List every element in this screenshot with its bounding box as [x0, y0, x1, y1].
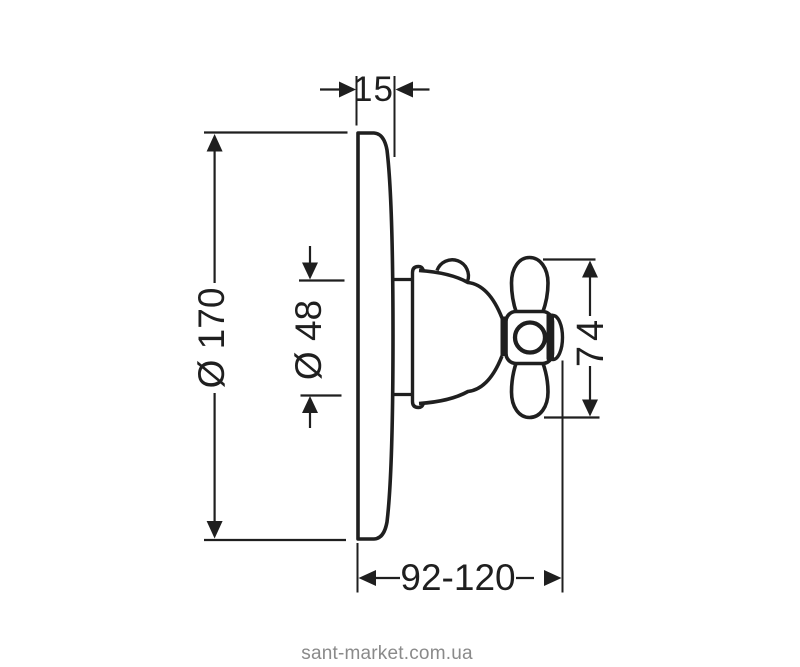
dimension D170: dimension line upper segment — [214, 150, 216, 283]
dimension 92-120: right leader line — [516, 577, 534, 579]
wire top connector plate-to-sleeve — [391, 278, 414, 281]
dimension 15: left extension line — [356, 76, 358, 126]
dimension 15: right leader line — [412, 88, 430, 90]
dimension 74: dimension line lower segment — [589, 366, 591, 400]
hub right bar — [547, 314, 555, 361]
svg-text:74: 74 — [570, 315, 612, 367]
dimension 74: bottom arrowhead — [582, 400, 598, 417]
dimension D48: top tick — [299, 279, 345, 281]
dimension 74: top arrowhead — [582, 261, 598, 278]
dome bottom edge — [419, 356, 502, 404]
dimension D170: top extension line — [204, 131, 348, 133]
svg-text:Ø 170: Ø 170 — [191, 288, 232, 389]
dimension 92-120: left extension line — [357, 543, 359, 593]
svg-text:Ø 48: Ø 48 — [288, 300, 329, 380]
dimension D48: bottom tick — [301, 394, 342, 396]
dimension 92-120: right arrowhead — [544, 570, 562, 586]
dimension D170: bottom extension line — [204, 539, 346, 541]
dimension D170: dimension line lower segment — [214, 393, 216, 522]
dimension 15: right arrowhead — [396, 82, 414, 98]
dimension D48: top arrowhead — [302, 263, 318, 280]
dimension D170: top arrowhead — [207, 134, 223, 152]
dimension 74: bottom extension line — [544, 416, 600, 418]
dimension 92-120: left arrowhead — [359, 570, 377, 586]
dimension D170: bottom arrowhead — [207, 521, 223, 539]
dimension 15: left arrowhead — [339, 82, 356, 98]
neck bar between dome and hub — [501, 317, 508, 357]
dome top edge — [419, 271, 502, 319]
svg-text:15: 15 — [353, 70, 394, 109]
hub ring — [515, 323, 545, 353]
svg-text:92-120: 92-120 — [400, 557, 515, 598]
dome bell body fill — [419, 271, 502, 404]
dimension D48: bottom pointer line — [309, 413, 311, 429]
sleeve capsule — [413, 267, 426, 408]
dimension D48: bottom arrowhead — [302, 396, 318, 413]
dimension 74: top extension line — [543, 258, 596, 260]
safety button bump on dome — [437, 260, 468, 283]
wall plate (escutcheon, side view) — [358, 133, 393, 539]
dimension 15: right extension line — [394, 76, 396, 157]
handle hub — [506, 312, 553, 364]
dimension 92-120: right extension line — [562, 361, 564, 593]
dimension 74: dimension line upper segment — [589, 276, 591, 316]
dimension 92-120: left leader line — [375, 577, 400, 579]
watermark — [0, 643, 774, 665]
wire bottom connector plate-to-sleeve — [391, 393, 414, 396]
dimension D48: top pointer line — [309, 246, 311, 263]
hub end cap — [544, 316, 563, 360]
dimension 15: left leader line — [320, 88, 340, 90]
handle lower spoke — [512, 362, 549, 418]
handle upper spoke — [512, 258, 549, 314]
